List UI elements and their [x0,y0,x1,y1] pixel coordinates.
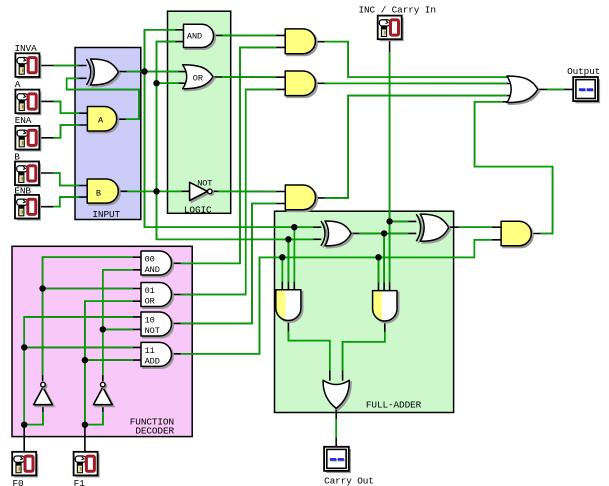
svg-text:F0: F0 [13,478,25,486]
svg-text:NOT: NOT [197,178,212,188]
svg-text:OR: OR [145,297,155,307]
svg-text:OR: OR [193,74,203,84]
svg-text:AND: AND [187,31,202,41]
svg-text:INVA: INVA [15,43,38,54]
svg-text:ENA: ENA [15,115,32,126]
svg-text:INC / Carry In: INC / Carry In [359,5,436,16]
svg-text:A: A [15,79,21,90]
svg-text:00: 00 [145,255,155,265]
svg-text:11: 11 [145,346,155,356]
svg-text:DECODER: DECODER [135,425,174,436]
svg-text:NOT: NOT [145,326,160,336]
svg-text:FULL-ADDER: FULL-ADDER [366,400,422,411]
svg-text:ENB: ENB [14,185,31,196]
svg-text:Output: Output [567,66,600,77]
svg-text:B: B [14,152,20,163]
svg-text:INPUT: INPUT [92,209,120,220]
svg-text:Carry Out: Carry Out [324,475,374,486]
svg-text:01: 01 [145,286,155,296]
svg-text:10: 10 [145,316,155,326]
svg-text:B: B [96,188,101,198]
svg-text:LOGIC: LOGIC [184,205,212,216]
svg-text:F1: F1 [74,478,86,486]
svg-text:ADD: ADD [145,356,160,366]
svg-text:AND: AND [145,265,160,275]
